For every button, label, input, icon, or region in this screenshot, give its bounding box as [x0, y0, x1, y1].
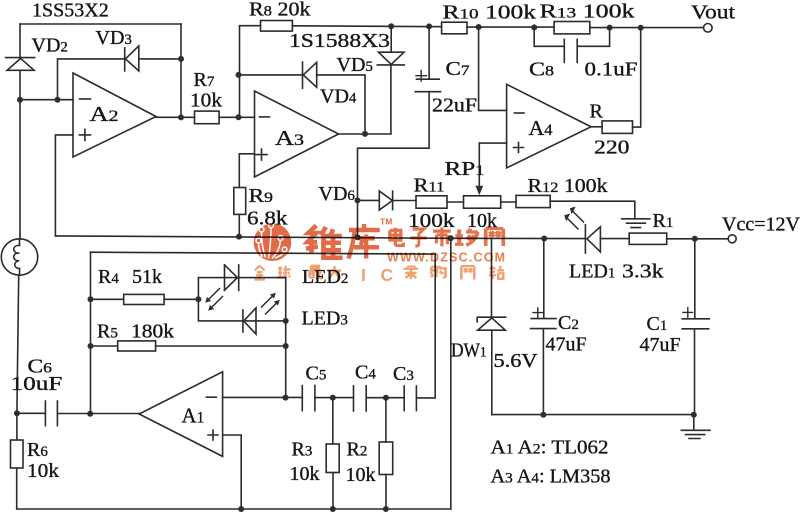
LED3 emission arrows	[262, 293, 280, 314]
WATERMARK	[254, 217, 507, 286]
wire A3 plus to R9	[239, 154, 254, 188]
watermark char dian	[390, 228, 403, 246]
LED LED3	[243, 308, 256, 334]
wire R8 left branch	[236, 26, 261, 118]
capacitor C4	[354, 362, 377, 411]
wire top-left rail	[20, 23, 181, 25]
svg-text:R7: R7	[194, 69, 215, 91]
resistor R8	[249, 0, 311, 31]
wire A2 plus feedback	[55, 135, 73, 236]
label VD2	[32, 35, 68, 57]
watermark char zhan	[489, 266, 504, 279]
svg-text:A4: A4	[529, 116, 553, 140]
label VD4	[320, 86, 357, 108]
op-amp A1	[139, 372, 223, 457]
LED2 emission arrows	[205, 289, 222, 311]
svg-text:A2: A2	[90, 102, 119, 126]
wire LED box right vertical	[283, 321, 289, 401]
resistor R13	[540, 1, 635, 34]
wire bottom rail	[17, 506, 451, 512]
svg-text:C7: C7	[446, 58, 471, 80]
capacitor C6	[11, 356, 63, 426]
wire R4 R5 left vertical	[88, 252, 94, 414]
resistor R7	[190, 69, 222, 124]
capacitor C2	[531, 239, 587, 415]
watermark char cai	[404, 265, 418, 279]
svg-text:VD5: VD5	[337, 54, 373, 76]
svg-text:10uF: 10uF	[11, 373, 63, 395]
svg-text:A3 A4: LM358: A3 A4: LM358	[491, 466, 611, 488]
wire top rail R13 to Vout	[590, 25, 704, 31]
svg-text:R12 100k: R12 100k	[528, 175, 608, 197]
svg-text:VD3: VD3	[96, 27, 132, 49]
label A1 A2: TL062	[491, 437, 609, 459]
svg-text:R5: R5	[97, 321, 118, 343]
resistor R9	[234, 185, 288, 230]
diode VD4	[239, 62, 366, 134]
svg-text:R10 100k: R10 100k	[443, 2, 537, 24]
op-amp A2	[73, 73, 156, 157]
watermark char quan	[254, 266, 264, 280]
watermark char qiu	[277, 266, 290, 279]
resistor R4	[91, 266, 199, 305]
diode VD3	[125, 46, 139, 71]
capacitor C7	[358, 26, 478, 237]
resistor R12	[516, 175, 608, 208]
svg-text:R11: R11	[414, 175, 445, 197]
svg-text:R2: R2	[347, 439, 368, 461]
watermark logo circle	[254, 223, 292, 261]
capacitor C8	[529, 27, 638, 80]
label VD3	[96, 27, 132, 49]
wire feedback top line	[91, 252, 436, 398]
svg-text:220: 220	[594, 137, 630, 159]
svg-text:VD6: VD6	[319, 183, 356, 205]
capacitor C3	[393, 363, 416, 411]
resistor R6	[11, 413, 60, 509]
watermark char shi	[433, 227, 451, 246]
potentiometer RP1	[445, 143, 501, 232]
resistor R2	[346, 398, 393, 509]
label A3 A4: LM358	[491, 466, 611, 488]
wire zener ground bus	[492, 412, 697, 418]
watermark char gou	[431, 266, 445, 278]
watermark char zui	[308, 266, 322, 279]
svg-text:10k: 10k	[190, 90, 222, 112]
svg-text:R1: R1	[653, 210, 674, 232]
svg-text:A3: A3	[275, 126, 304, 150]
wire RP1 to R12	[501, 201, 516, 203]
wire C5 to C4	[315, 395, 354, 401]
svg-text:A1: A1	[182, 404, 205, 428]
op-amp A4	[507, 84, 591, 168]
watermark char zi	[410, 229, 426, 246]
svg-text:LED3: LED3	[302, 308, 348, 330]
svg-text:A1 A2: TL062: A1 A2: TL062	[491, 437, 609, 459]
wire R11 to RP1	[447, 201, 464, 203]
svg-text:47uF: 47uF	[640, 334, 681, 356]
svg-text:TM: TM	[380, 217, 392, 227]
svg-text:DW1: DW1	[451, 340, 487, 362]
wire C6 to A1 output	[57, 411, 139, 417]
watermark char chang	[455, 229, 478, 246]
label 1SS53X2	[32, 0, 109, 22]
svg-text:R3: R3	[292, 439, 313, 461]
wire R7 to A3 minus	[219, 114, 254, 120]
svg-text:R9: R9	[249, 185, 274, 207]
node LED box frame	[195, 278, 288, 324]
watermark char ku	[348, 224, 379, 259]
resistor R10	[442, 2, 536, 34]
svg-text:1SS53X2: 1SS53X2	[32, 0, 109, 22]
watermark url WWW.DZSC.COM	[387, 251, 506, 265]
wire A3 output	[339, 131, 391, 137]
LED LED2	[225, 265, 239, 290]
zener DW1	[451, 238, 538, 414]
capacitor C1	[640, 239, 710, 415]
svg-text:10k: 10k	[27, 460, 59, 482]
svg-text:R6: R6	[27, 439, 48, 461]
svg-text:R13 100k: R13 100k	[540, 1, 635, 23]
svg-text:10k: 10k	[290, 463, 320, 485]
svg-text:3.3k: 3.3k	[622, 261, 664, 283]
wire A4 plus to RP1 wiper	[479, 142, 506, 144]
ground main	[681, 415, 710, 439]
label LED2	[302, 266, 348, 288]
diode VD6	[319, 183, 417, 210]
svg-text:C1: C1	[647, 313, 668, 335]
wire source to C6 node	[14, 275, 20, 416]
resistor R 220	[590, 101, 633, 159]
label VD5	[337, 54, 373, 76]
wire node A2 inputs	[17, 97, 73, 103]
node rail junctions	[355, 234, 548, 241]
svg-text:5.6V: 5.6V	[494, 350, 539, 372]
LED1 emission arrows	[564, 207, 583, 230]
wire R1 to Vcc terminal	[667, 236, 729, 242]
svg-text:LED1: LED1	[569, 261, 615, 283]
svg-text:C: C	[381, 265, 394, 285]
terminal Vcc=12V	[722, 214, 800, 243]
svg-text:WWW.DZSC.COM: WWW.DZSC.COM	[387, 251, 506, 265]
wire R9 bottom	[236, 214, 242, 239]
resistor R3	[290, 398, 340, 509]
wire VD3 branch	[58, 59, 182, 100]
wire A4 output	[591, 126, 602, 128]
svg-text:10k: 10k	[346, 464, 376, 486]
svg-text:R4: R4	[98, 266, 119, 288]
wire top rail R8 to R10	[292, 23, 441, 29]
capacitor C5	[302, 363, 326, 411]
wire R220 up to Vout rail	[633, 28, 641, 127]
svg-text:0.1uF: 0.1uF	[585, 59, 638, 81]
svg-text:R8 20k: R8 20k	[249, 0, 311, 21]
svg-text:180k: 180k	[131, 321, 174, 343]
svg-text:VD2: VD2	[32, 35, 68, 57]
svg-text:C3: C3	[393, 363, 414, 385]
svg-text:1S1588X3: 1S1588X3	[289, 30, 390, 52]
label LED1 3.3k	[569, 261, 664, 283]
diode VD2	[6, 24, 35, 100]
watermark char da	[328, 266, 342, 279]
watermark char wang	[486, 229, 504, 246]
wire rail down to bottom rail	[450, 238, 452, 509]
watermark trademark TM	[380, 217, 392, 227]
wire top rail R10 to R13	[467, 24, 554, 30]
svg-text:Vcc=12V: Vcc=12V	[722, 214, 800, 236]
svg-text:R: R	[590, 101, 604, 123]
wire A2 output	[156, 116, 195, 118]
wire C4 to C3	[366, 395, 404, 401]
terminal Vout	[691, 2, 736, 33]
wire main supply rail	[55, 236, 585, 239]
ground at R12	[622, 219, 650, 228]
wire A1 minus to C5	[223, 396, 303, 398]
resistor R1	[629, 210, 673, 244]
svg-text:22uF: 22uF	[432, 95, 477, 117]
signal source M1	[1, 100, 37, 276]
watermark letters I C	[361, 265, 394, 285]
watermark char wei	[306, 225, 343, 258]
label LED3	[302, 308, 348, 330]
op-amp A3	[255, 91, 339, 177]
LED LED1	[585, 225, 629, 253]
svg-text:47uF: 47uF	[546, 334, 587, 356]
svg-text:Vout: Vout	[691, 2, 736, 24]
svg-text:51k: 51k	[132, 266, 162, 288]
svg-text:VD4: VD4	[320, 86, 357, 108]
svg-text:I: I	[361, 265, 366, 285]
wire right vertical of 1SS53 loop	[178, 24, 184, 120]
wire A4 minus to R10 node	[476, 24, 507, 110]
svg-text:C8: C8	[529, 59, 554, 81]
diode VD5	[377, 26, 404, 134]
wire R12 to ground	[550, 201, 635, 218]
svg-text:C5: C5	[306, 363, 327, 385]
svg-text:C2: C2	[558, 312, 579, 334]
watermark char wang small	[461, 266, 474, 279]
svg-text:C4: C4	[355, 362, 376, 384]
wire A1 plus down	[223, 435, 242, 509]
label 1S1588X3	[289, 30, 390, 52]
resistor R5	[91, 321, 286, 352]
resistor R11	[408, 175, 455, 233]
